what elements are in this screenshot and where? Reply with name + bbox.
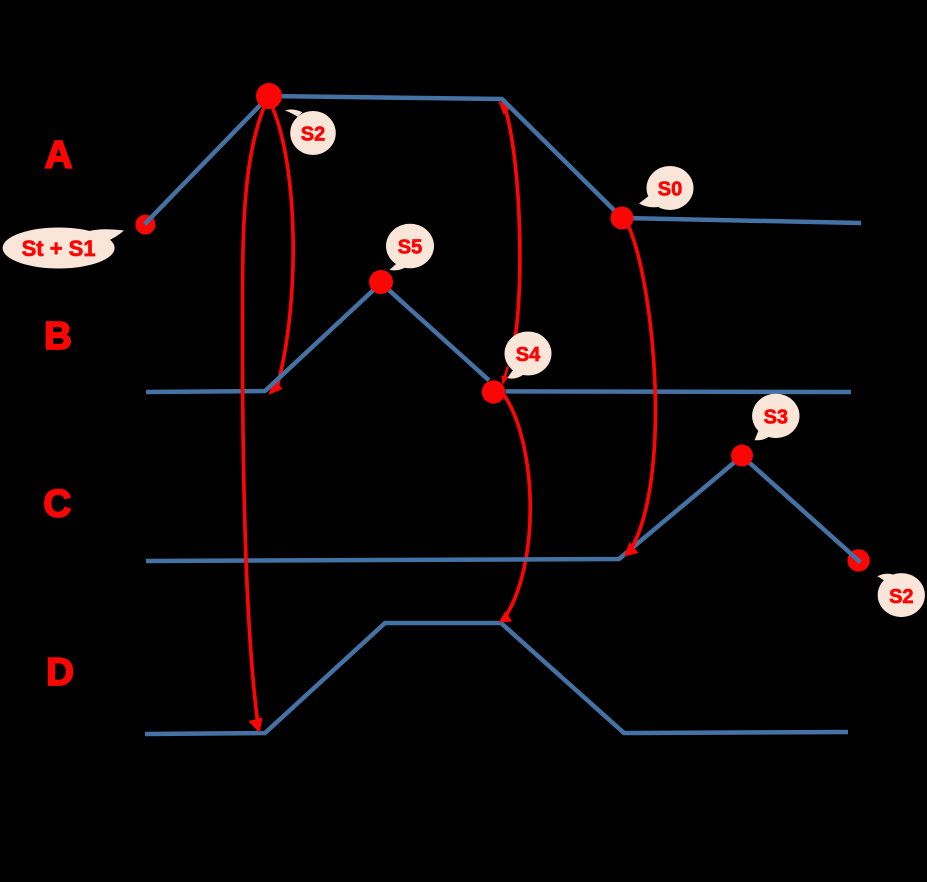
callout St + S1: [3, 228, 124, 269]
node S0 dot: [611, 207, 634, 230]
node S5 dot: [369, 270, 393, 294]
waveform D: [145, 623, 848, 734]
arc S4 to A (under waveform A): [498, 101, 520, 352]
callout S5: [386, 224, 434, 271]
callout S2: [285, 109, 336, 155]
svg-text:S2: S2: [889, 586, 913, 608]
svg-text:S3: S3: [764, 406, 788, 428]
svg-text:C: C: [43, 483, 71, 526]
svg-text:B: B: [44, 315, 72, 358]
svg-text:S0: S0: [658, 179, 682, 201]
callout S2b: [877, 573, 925, 617]
waveform A: [145, 96, 862, 224]
callout S0: [639, 166, 694, 210]
arc S2 to B (under waveforms): [268, 102, 293, 395]
svg-text:S2: S2: [301, 124, 325, 146]
callout S3: [752, 394, 799, 441]
arrowhead into S4 (lower end of A-S4 connector, over bubble tail): [501, 367, 508, 386]
node S2b dot: [847, 549, 869, 571]
svg-text:St + S1: St + S1: [22, 236, 96, 261]
waveform B right part: [506, 389, 852, 394]
node S2 dot: [256, 83, 282, 109]
node S3 dot: [731, 445, 753, 467]
callout S4: [505, 332, 552, 379]
arc S4 to D (over waveform D, under waveform C): [499, 395, 530, 623]
svg-text:S4: S4: [516, 344, 541, 366]
node S4 dot: [482, 380, 505, 403]
node start dot (under line A): [135, 215, 155, 235]
svg-text:D: D: [46, 651, 74, 694]
arc S0 to C (over waveforms): [624, 227, 655, 557]
waveform C: [146, 456, 861, 562]
waveform B left part: [146, 283, 489, 392]
svg-text:S5: S5: [398, 237, 422, 259]
svg-text:A: A: [45, 134, 73, 177]
arc S2 to D (over waveforms): [242, 98, 268, 733]
